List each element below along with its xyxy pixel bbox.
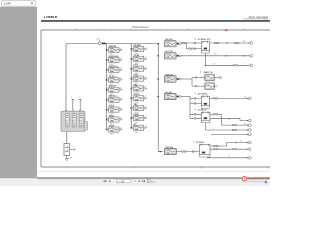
svg-text:1J: 1J [145,67,147,69]
fuse F1 [106,45,123,56]
svg-text:1J: 1J [120,78,122,80]
svg-text:W-L: W-L [214,54,217,56]
svg-text:IG1 RELAY 5 1E: IG1 RELAY 5 1E [198,38,212,41]
wire block to battery [66,132,68,144]
wire relay R4 output row [210,148,251,151]
wire FL3 to fuses F19 F20 [181,77,205,87]
svg-text:1 YARIS B: 1 YARIS B [44,15,58,19]
wire feed relay R3 inputs [190,114,201,118]
svg-text:1J: 1J [120,127,122,129]
fuse F18 [130,123,147,134]
fuse FL4 [157,91,180,100]
wire bus column C [158,44,163,152]
fuse F15 [130,94,147,104]
svg-text:1J: 1J [145,57,147,59]
fuse F14 [130,84,147,94]
wire relay R3 coil output row [206,123,252,132]
wire relay R3 top output [210,114,251,127]
wire battery to ground [66,156,68,159]
svg-text:1.5: 1.5 [65,121,67,123]
fuse F6 [106,95,123,106]
fuse F9 [106,126,123,136]
svg-text:1J: 1J [145,47,147,49]
svg-text:RADIO 15A: RADIO 15A [204,71,214,74]
relay R3 [194,109,210,123]
fuse F11 [130,54,147,65]
wire FL2 long output row [181,54,253,58]
fuse F10 [130,44,147,55]
wire bus column A [106,44,108,130]
svg-text:1J: 1J [120,117,122,119]
svg-text:B-R 2: B-R 2 [110,134,114,136]
fusible link FL3 [79,114,83,127]
svg-text:1-2JF: 1-2JF [4,2,11,6]
fuse F3 [106,66,123,76]
junction main feed into block [65,110,67,112]
fusible link FL1 [65,114,69,127]
svg-text:0.5: 0.5 [72,121,74,123]
wire relay R4 bottom pin row [207,156,251,159]
fuse FL5 [159,146,176,155]
fuse F12 [130,65,147,75]
fuse FL1 [157,38,180,47]
svg-text:B-R 2: B-R 2 [135,132,139,134]
svg-text:1J: 1J [145,86,147,88]
fuse F16 [130,103,147,114]
svg-text:1 / 318: 1 / 318 [117,181,125,183]
svg-text:2 1B: 2 1B [96,38,99,40]
svg-text:1J: 1J [120,98,122,100]
svg-text:1J: 1J [120,107,122,109]
ground [65,158,72,161]
svg-text:1J: 1J [120,88,122,90]
wire relay R4 top output to edge [210,141,251,147]
fuse F19 RADIO [200,71,222,81]
svg-text:CARDIAGN.COM: CARDIAGN.COM [248,177,270,181]
wire main battery feed bus [66,44,158,112]
svg-text:1J: 1J [145,116,147,118]
svg-text:3 1E: 3 1E [213,64,216,66]
svg-text:IG2 RELAY: IG2 RELAY [198,109,208,112]
fuse FL2 [157,50,180,59]
wire relay R2 output row [210,97,252,100]
svg-text:Power Source: Power Source [132,25,149,29]
svg-text:1: 1 [71,97,72,99]
wire relay R1 output row [210,40,253,45]
fuse F13 [130,75,147,85]
svg-text:ACC RELAY: ACC RELAY [198,93,209,96]
wire FL1 to relay R1 inputs [181,42,201,49]
svg-text:1J: 1J [145,76,147,78]
fusible link block FL MAIN [61,111,88,131]
svg-text:1J: 1J [145,106,147,108]
svg-text:0.3: 0.3 [79,121,81,123]
wire relay R3 bottom output [210,118,251,122]
fuse F20 DOME [205,83,217,90]
battery [64,144,75,156]
svg-text:1J: 1J [145,126,147,128]
fuse F7 [106,106,123,116]
svg-text:EB: EB [70,158,72,160]
svg-text:ST RELAY: ST RELAY [196,141,205,144]
terminal riser 3 [78,97,81,112]
connector pair fuse FL5 output [177,151,200,153]
fuse F2 [106,55,123,66]
svg-text:2B: 2B [228,119,230,121]
relay R1 [194,38,211,53]
wire relay R2 to relay R3 feed [189,103,191,118]
relay R2 [194,93,209,109]
wire row to edge mid [211,133,251,136]
svg-text:1D: 1D [228,156,230,158]
fuse F17 [130,113,147,124]
svg-text:75%: 75% [151,181,155,183]
fuse F5 [106,85,123,96]
fuse FL3 [157,73,180,82]
relay R4 [192,141,210,157]
svg-text:1C: 1C [213,128,215,130]
wire FL4 to relay R2 [181,97,201,104]
terminal riser 2 [71,97,74,112]
svg-text:(Cont. next page): (Cont. next page) [249,16,268,19]
wire bus column B [130,44,132,128]
svg-text:1J: 1J [120,58,122,60]
pin labels right half [213,64,247,159]
wire relay R1 coil drop and row to edge [205,53,253,67]
fuse F8 [106,115,123,126]
node S battery positive terminal [96,38,105,45]
fuse F4 [106,76,123,86]
svg-text:1J: 1J [120,68,122,70]
svg-text:1J: 1J [120,48,122,50]
svg-text:2: 2 [78,97,79,99]
fusible link FL2 [72,114,76,127]
svg-text:1J: 1J [145,96,147,98]
